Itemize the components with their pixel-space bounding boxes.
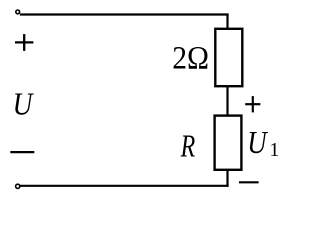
svg-text:2Ω: 2Ω [172, 41, 209, 77]
terminal: top-left input [16, 10, 20, 14]
resistor R (rectangle body) [215, 116, 242, 170]
wire: below resistor R [226, 170, 228, 187]
svg-text:1: 1 [269, 139, 279, 161]
terminal: bottom-left input [16, 184, 20, 188]
wire: right vertical drop to resistor 2Ω [226, 14, 228, 30]
resistor 2Ω (rectangle body) [215, 29, 242, 86]
svg-text:U: U [13, 86, 34, 122]
label: − polarity of U [10, 151, 34, 153]
svg-text:U: U [247, 124, 268, 160]
label: + polarity of U [15, 34, 33, 51]
wire: top horizontal [20, 13, 229, 15]
svg-text:R: R [180, 128, 195, 163]
label: − polarity of U1 [239, 181, 259, 183]
wire: between resistor 2Ω and resistor R [226, 86, 228, 116]
label: + polarity of U1 [245, 96, 260, 112]
wire: bottom horizontal [20, 185, 229, 187]
